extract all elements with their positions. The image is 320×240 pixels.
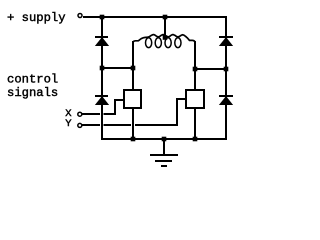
- node: bottom rail / right box pin: [193, 137, 198, 142]
- wire coil left lead vertical: [132, 41, 134, 90]
- wire right box bottom pin: [194, 108, 196, 140]
- terminal: Y: [78, 123, 82, 127]
- wire Y to right box: [176, 98, 186, 100]
- wire right rail vertical: [225, 16, 227, 140]
- node: bottom rail / ground tap: [162, 137, 167, 142]
- inductor L1 coil: [133, 35, 195, 48]
- svg-text:+ supply: + supply: [7, 11, 66, 25]
- wire ground tap: [163, 139, 165, 155]
- junction dots: [100, 15, 229, 142]
- wire X to left box: [114, 99, 124, 101]
- wire Y signal: [82, 124, 178, 126]
- svg-text:control: control: [7, 73, 58, 87]
- terminal: X: [78, 112, 82, 116]
- wire left box bottom pin: [132, 108, 134, 140]
- svg-text:signals: signals: [7, 86, 58, 100]
- node: left connector / coil left lead: [131, 66, 136, 71]
- wire X step vertical: [114, 99, 116, 115]
- node: top rail / left rail: [100, 15, 105, 20]
- node: left rail / left connector: [100, 66, 105, 71]
- diode D4 (lower right, pointing up): [219, 96, 233, 105]
- wire top supply rail: [83, 16, 227, 18]
- svg-text:Y: Y: [65, 118, 72, 130]
- diode D3 (upper right, pointing up): [219, 37, 233, 46]
- terminal: + supply: [78, 14, 82, 18]
- wire left rail vertical: [101, 16, 103, 140]
- node: center tap / coil: [163, 35, 168, 40]
- ground: [150, 155, 178, 166]
- node: bottom rail / left box pin: [131, 137, 136, 142]
- diode D1 (upper left, pointing up): [95, 37, 109, 46]
- wire X signal: [82, 113, 116, 115]
- switch box U2 (right): [186, 90, 204, 108]
- wire bottom rail: [101, 138, 227, 140]
- wire coil right lead vertical: [194, 41, 196, 90]
- switch box U1 (left): [124, 90, 141, 108]
- diode D2 (lower left, pointing up): [95, 96, 109, 105]
- node: right connector / right rail: [224, 67, 229, 72]
- node: right connector / coil right lead: [193, 67, 198, 72]
- wire center tap: [164, 17, 166, 38]
- wire right connector: [193, 68, 227, 70]
- node: top rail / center tap: [163, 15, 168, 20]
- wire left connector: [101, 67, 134, 69]
- wire Y step vertical: [176, 98, 178, 126]
